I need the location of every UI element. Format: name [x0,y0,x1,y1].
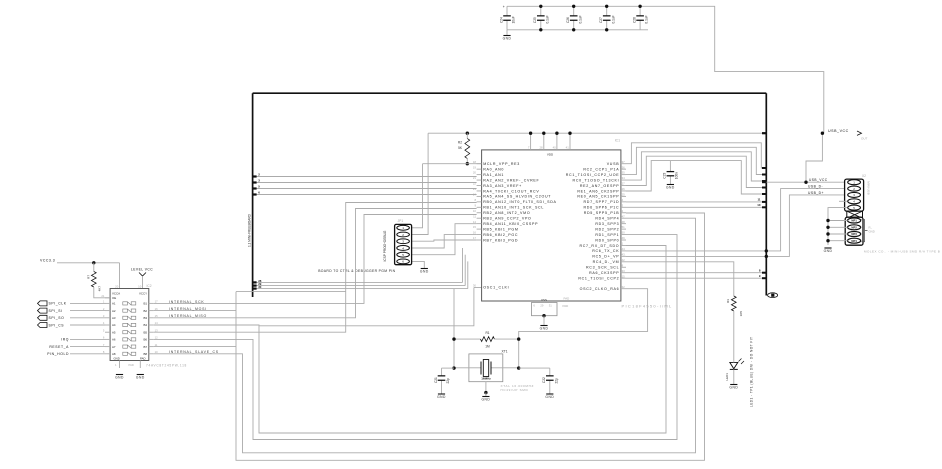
wire INTERNAL_SCK [154,215,477,304]
svg-text:PAD: PAD [564,297,570,301]
wire OSC2 route [519,289,648,368]
wire MCU to module edge pin 8 [626,272,766,274]
junction at module edge D- [765,249,768,252]
svg-text:PAD: PAD [140,356,146,360]
svg-text:MOLEX CO.. - MINI-USB SMD R/A: MOLEX CO.. - MINI-USB SMD R/A TYPE B [864,250,940,254]
wire INTERNAL_MOSI [154,310,236,312]
svg-text:A6: A6 [112,338,116,342]
svg-text:48: 48 [622,220,626,224]
MCU pin 43 RC5/D+/VP [621,255,626,257]
svg-text:22p: 22p [446,378,450,384]
wire R3 to LED [733,311,735,360]
resistor R3 1K5 [731,296,736,311]
svg-text:OUT: OUT [861,137,868,141]
shield pad MP4 [848,238,861,243]
level shifter pin A4 [105,324,110,326]
svg-text:USB_VCC: USB_VCC [809,178,828,182]
svg-text:20: 20 [115,285,119,289]
wire GND bottom rail of cap bank [507,29,648,31]
wire from module edge pin 30 to ICSP [253,288,468,290]
wire shield pad [828,233,848,235]
capacitor C25 0.1uF [540,6,542,16]
ground below shield [824,247,831,249]
junction [572,5,575,8]
ground below crystal [485,382,487,393]
svg-text:B6: B6 [143,338,147,342]
buffer symbol [123,345,128,348]
input flag SPI_CLK [38,301,48,306]
wire MCU to module edge [626,147,766,174]
buffer symbol [123,331,128,334]
svg-text:30: 30 [473,283,477,287]
svg-text:B3: B3 [143,316,147,320]
wire USB_D- route [626,189,847,251]
svg-text:74AVC8T245PW,118: 74AVC8T245PW,118 [146,364,187,368]
svg-text:RE2_AN7_OESPP: RE2_AN7_OESPP [580,184,619,188]
USB body crossed section [847,211,863,218]
wire PIN_HOLD [70,353,105,355]
MCU pin 48 RD3/SPP3 [621,223,626,225]
MCU pin 27 RE2/AN7/OESPP [621,185,626,187]
wire MCU to module edge [626,152,766,181]
wire VCC top rail [507,6,824,133]
svg-text:50: 50 [622,231,626,235]
svg-text:16MHz: 16MHz [481,377,491,381]
MCU VDD pin stub 40 [556,133,558,150]
svg-text:10: 10 [138,285,142,289]
svg-text:32: 32 [622,285,626,289]
svg-text:43: 43 [622,252,626,256]
resistor R2 10K [466,132,469,135]
buffer symbol [123,309,128,312]
wire crystal left vertical [453,289,455,369]
level shifter OE pin [105,297,110,299]
wire from module edge pin 5 [253,188,477,190]
MCU pin 23 RA4/T0CKI/C1OUT/RCV [477,190,482,192]
svg-text:C23: C23 [663,173,667,179]
shield pad MP2 [848,225,861,230]
svg-text:GND: GND [824,249,833,253]
wire SPI_CLK [70,302,105,304]
MCU pin 25 RE0/AN5/CK1SPP [621,195,626,197]
MCU pin 14 RB4/AN11/KBI0/CSSPP [477,223,482,225]
svg-text:0.1uF: 0.1uF [545,15,549,23]
level shifter pin B2 [149,310,154,312]
wire from module edge pin 3 [253,182,477,184]
MCU VDD pin stub 28 [543,133,545,150]
wire shield pad [828,220,848,222]
svg-text:GND: GND [729,386,738,390]
MCU pin 26 RE1/AN6/CK2SPP [621,190,626,192]
svg-text:XT1: XT1 [502,350,508,354]
USB connector X2 body [845,179,864,211]
svg-text:0.1uF: 0.1uF [611,15,615,23]
svg-text:23: 23 [473,187,477,191]
level shifter pin B1 [149,302,154,304]
svg-text:B4: B4 [143,323,147,327]
MCU pin 18 MCLR/VPP/RE3 [477,163,482,165]
svg-text:20: 20 [473,171,477,175]
MCU pin 3 RD6/SPP6/P1C [621,206,626,208]
svg-text:49: 49 [622,236,626,240]
svg-text:RB1_AN10_INT1_SCK_SCL: RB1_AN10_INT1_SCK_SCL [483,206,544,210]
svg-text:GND: GND [503,37,512,41]
svg-text:18: 18 [473,160,477,164]
svg-text:C21: C21 [434,377,438,383]
wire shield pad [828,226,848,228]
svg-text:B7: B7 [143,345,147,349]
svg-text:47: 47 [622,214,626,218]
svg-text:35: 35 [622,171,626,175]
MCU VSS stub 29 [543,301,545,303]
junction [539,5,542,8]
svg-text:MP3: MP3 [851,232,857,236]
svg-text:INTERNAL_MOSI: INTERNAL_MOSI [169,307,207,311]
svg-text:B1: B1 [143,302,147,306]
svg-text:14: 14 [473,220,477,224]
svg-text:C22: C22 [542,377,546,383]
svg-text:RD2_SPP2: RD2_SPP2 [595,227,619,231]
module outline top edge [253,92,767,94]
MCU pin 8 RC3/SCK/SCL [621,266,626,268]
svg-text:7: 7 [528,146,530,150]
input flag SPI_SO [38,315,48,320]
svg-text:51: 51 [622,225,626,229]
junction [605,5,608,8]
wire VCC rail [428,132,766,134]
level shifter PAD stub [139,361,141,369]
svg-text:USB_D-: USB_D- [808,185,823,189]
MCU IC1 body [482,150,621,301]
svg-text:RD1_SPP1: RD1_SPP1 [595,233,619,237]
svg-text:9: 9 [474,203,476,207]
svg-text:B5: B5 [143,330,147,334]
svg-text:RD7_SPP7_P1D: RD7_SPP7_P1D [584,200,620,204]
svg-text:RA2_AN2_VREF-_CVREF: RA2_AN2_VREF-_CVREF [483,178,539,182]
svg-text:0.1uF: 0.1uF [578,15,582,23]
svg-text:31: 31 [549,303,552,307]
svg-text:GND: GND [420,270,429,274]
MCU pin 44 RC6/TX/CK [621,250,626,252]
level shifter pin A6 [105,338,110,340]
svg-text:GND: GND [481,398,490,402]
svg-text:27: 27 [622,182,626,186]
MCU pin 33 RA6/CK3SPP [621,272,626,274]
capacitor C26 0.1uF [573,6,575,16]
wire VCCY [142,276,144,289]
level shifter pin B7 [149,346,154,348]
capacitor C21 22p [452,366,455,369]
svg-text:RA6_CK3SPP: RA6_CK3SPP [589,271,619,275]
svg-text:INTERNAL_MISO: INTERNAL_MISO [169,314,207,318]
junction [572,28,575,31]
svg-text:1K5: 1K5 [739,311,743,317]
svg-text:RD3_SPP3: RD3_SPP3 [595,222,619,226]
svg-text:21: 21 [473,176,477,180]
svg-text:SPI_CS: SPI_CS [49,323,65,327]
svg-text:OSC1_CLKI: OSC1_CLKI [483,286,509,290]
crystal XT1 [469,354,503,382]
svg-text:RA4_T0CKI_C1OUT_RCV: RA4_T0CKI_C1OUT_RCV [483,189,539,193]
svg-text:X2: X2 [862,174,866,178]
wire shield pad [828,240,848,242]
svg-text:MCLR_VPP_RE3: MCLR_VPP_RE3 [483,162,520,166]
LED1 [730,362,738,368]
svg-text:37: 37 [622,160,626,164]
svg-text:21: 21 [101,294,104,298]
wire USB_VCC to pin1 [766,181,847,183]
svg-text:RB3_AN9_CCP2_VPO: RB3_AN9_CCP2_VPO [483,217,531,221]
capacitor C23 100n [669,161,671,172]
svg-text:INTERNAL_SLAVE_CS: INTERNAL_SLAVE_CS [169,350,219,354]
svg-text:MP2: MP2 [851,226,857,230]
svg-text:RB2_AN8_INT2_VMO: RB2_AN8_INT2_VMO [483,211,530,215]
wire SPI_CS [70,324,105,326]
svg-text:C28: C28 [633,17,637,23]
svg-text:C25: C25 [533,17,537,23]
svg-text:LED1 - TP1 (BLUE) DNI - DO NOT: LED1 - TP1 (BLUE) DNI - DO NOT FIT [750,337,754,407]
junction VCC3.3 [92,261,95,264]
label shield bracket [862,220,865,242]
ground below C21 [441,388,443,394]
USB shield pads [845,217,863,245]
USB pin 5 [848,205,861,210]
wire OSC1 pin stub [474,287,482,289]
wire OSC1 lower route [236,291,346,293]
svg-text:RD5_SPP5_P1B: RD5_SPP5_P1B [584,211,620,215]
MCU pin 4 RD7/SPP7/P1D [621,201,626,203]
wire from module edge pin 6 [253,194,477,196]
MCU VDD pin stub 7 [530,133,532,150]
level shifter pin A7 [105,346,110,348]
wire MCU to module edge pin 10 [626,206,766,208]
svg-text:RB6_KBI2_PGC: RB6_KBI2_PGC [483,233,518,237]
MCU pin 51 RD2/SPP2 [621,228,626,230]
MCU VSS stub 6 [535,301,537,303]
net flag oval at right edge end [768,293,778,298]
svg-text:1: 1 [115,363,117,367]
svg-text:C26: C26 [566,17,570,23]
svg-text:PIC18F4550-I/ML: PIC18F4550-I/ML [622,304,673,309]
wire from module edge pin 29 to ICSP [253,285,466,287]
ground below level shifter PAD [137,374,144,376]
MCU pin 47 RD4/SPP4 [621,217,626,219]
svg-text:RC3_SCK_SCL: RC3_SCK_SCL [586,266,619,270]
svg-text:OE: OE [112,296,116,300]
level shifter pin B4 [149,324,154,326]
svg-text:100n: 100n [675,172,679,179]
wire B4 net [154,246,666,434]
svg-text:GND: GND [437,395,446,399]
svg-text:6: 6 [533,303,535,307]
wire VCC3.3 net [57,262,120,264]
svg-text:10: 10 [473,209,477,213]
junction [638,5,641,8]
svg-text:RB5_KBI1_PGM: RB5_KBI1_PGM [483,227,518,231]
svg-text:OSC2_CLKO_RA6: OSC2_CLKO_RA6 [580,287,620,291]
svg-text:40: 40 [553,146,557,150]
wire MCLR net [423,163,482,165]
svg-text:+: + [503,5,505,9]
svg-text:30: 30 [258,285,262,289]
shield pad MP1 [848,218,861,223]
svg-text:5: 5 [103,328,105,332]
wire B7 net [236,213,705,460]
svg-text:BOARD TO CTRL & DEBUGGER PGM P: BOARD TO CTRL & DEBUGGER PGM PIN [318,269,395,273]
resistor R7 4K7 [93,263,95,272]
wire B5 net [154,203,477,333]
svg-text:24: 24 [473,193,477,197]
wire MCU to module edge pin 11 [626,201,766,203]
svg-text:RA3_AN3_VREF+: RA3_AN3_VREF+ [483,184,522,188]
svg-text:SPI_SI: SPI_SI [49,309,63,313]
svg-text:IRQ: IRQ [61,338,69,342]
svg-text:RC7_RX_DT_SDO: RC7_RX_DT_SDO [579,244,619,248]
svg-text:LED1: LED1 [725,373,729,381]
svg-text:PAD: PAD [563,304,569,308]
svg-text:RD4_SPP4: RD4_SPP4 [595,217,619,221]
wire SPI_SI [70,310,105,312]
USB pin 3 [848,192,861,197]
ground at ICSP [421,268,428,270]
MCU pin 2 RD5/SPP5/P1B [621,212,626,214]
svg-text:RESET_A: RESET_A [49,345,69,349]
MCU pin 36 RC2/CCP1/P1A [621,168,626,170]
svg-text:C27: C27 [599,17,603,23]
resistor R1 1M [454,338,481,340]
wire from module edge pin 2 [253,176,477,178]
svg-text:RC2_CCP1_P1A: RC2_CCP1_P1A [583,167,619,171]
wire SPI_SO [70,317,105,319]
buffer symbol [123,316,128,319]
input flag SPI_SI [38,308,48,313]
MCU pin 42 RC4/D-/VM [621,261,626,263]
svg-text:8: 8 [759,269,761,273]
svg-text:A5: A5 [112,330,116,334]
MCU pin 24 RA5/AN4/SS/HLVDIN/C2OUT [477,195,482,197]
MCU pin 10 RB2/AN8/INT2/VMO [477,212,482,214]
wire OSC1 vertical branch [259,288,474,326]
svg-text:42: 42 [622,258,626,262]
wire MCU to module edge [626,161,766,194]
svg-text:8: 8 [622,263,624,267]
svg-text:MINI-USB: MINI-USB [867,181,871,195]
svg-text:RC0_T1OSO_T13CKI: RC0_T1OSO_T13CKI [573,178,620,182]
svg-text:8: 8 [474,198,476,202]
svg-text:17: 17 [473,236,477,240]
svg-text:A1: A1 [112,302,116,306]
svg-text:1: 1 [622,242,624,246]
junction [605,28,608,31]
ground below MCU pads [543,316,545,326]
level shifter pin B6 [149,338,154,340]
svg-text:VCC3.3: VCC3.3 [40,259,55,263]
MCU pin 20 RA1/AN1 [477,174,482,176]
MCU pin 16 RB6/KBI2/PGC [477,234,482,236]
wire INTERNAL_SLAVE_CS [154,218,696,453]
MCU pin 21 RA2/AN2/VREF-/CVREF [477,179,482,181]
svg-text:10uF: 10uF [512,16,516,23]
wire IRQ [70,338,105,340]
svg-text:1M: 1M [485,344,490,348]
svg-text:MP1: MP1 [851,219,857,223]
svg-text:R7: R7 [86,275,90,279]
svg-text:22p: 22p [554,378,558,384]
svg-text:VCCY: VCCY [139,292,147,296]
svg-text:GND: GND [115,376,124,380]
MCU pin 37 VUSB [621,163,626,165]
svg-text:10: 10 [757,203,761,207]
svg-text:RD0_SPP0: RD0_SPP0 [595,238,619,242]
buffer symbol [123,323,128,326]
junction [539,28,542,31]
svg-text:RA5_AN4_SS_HLVDIN_C2OUT: RA5_AN4_SS_HLVDIN_C2OUT [483,195,551,199]
svg-text:22: 22 [473,182,477,186]
MCU pin 15 RB5/KBI1/PGM [477,228,482,230]
svg-text:15: 15 [622,274,626,278]
level shifter pin A3 [105,317,110,319]
svg-text:A4: A4 [112,323,116,327]
svg-text:2: 2 [622,209,624,213]
wire B7a net Y7 [154,346,236,348]
svg-text:IC2: IC2 [147,284,152,288]
net arrow OUT [857,131,862,135]
module outline left edge [252,93,254,297]
svg-text:RB7_KBI3_PGD: RB7_KBI3_PGD [483,238,518,242]
svg-text:RC1_T1OSI_CCP2: RC1_T1OSI_CCP2 [578,276,619,280]
MCU pin 19 RA0/AN0 [477,168,482,170]
wire LED feed [626,262,734,296]
svg-text:R2: R2 [458,141,462,145]
ground below LED1 [730,384,737,386]
level shifter pin A8 [105,353,110,355]
wire RESET_A [70,346,105,348]
svg-text:11: 11 [757,198,760,202]
wire B6 net [154,235,677,440]
junction at module edge D+ [765,255,768,258]
svg-text:INTERNAL_SCK: INTERNAL_SCK [169,300,204,304]
svg-text:3: 3 [622,203,624,207]
svg-text:36: 36 [622,165,626,169]
svg-text:ICSP PROG+DEBUG: ICSP PROG+DEBUG [383,230,387,261]
shield pad MP3 [848,232,861,237]
wire ICSP VDD [412,133,429,234]
svg-text:USB_D+: USB_D+ [808,191,824,195]
svg-text:GND: GND [540,327,549,331]
svg-text:15: 15 [473,225,477,229]
svg-text:44: 44 [622,247,626,251]
svg-text:RB0_AN12_INT0_FLT0_SDI_SDA: RB0_AN12_INT0_FLT0_SDI_SDA [483,200,556,204]
buffer symbol [123,338,128,341]
svg-text:A2: A2 [112,309,116,313]
MCU pin 1 RC7/RX/DT/SDO [621,244,626,246]
MCU VSS stub 31 [552,301,554,303]
svg-text:B2: B2 [143,309,147,313]
wire VCCA [119,263,121,289]
svg-text:RA1_AN1: RA1_AN1 [483,173,504,177]
svg-text:USB_VCC: USB_VCC [828,129,849,133]
svg-text:JP1: JP1 [398,219,404,223]
svg-text:LEVEL VCC: LEVEL VCC [131,268,153,272]
svg-text:VSS: VSS [541,298,547,302]
svg-text:VUSB: VUSB [607,162,620,166]
MCU VDD pin stub 41 [569,133,571,150]
capacitor C28 0.1uF [639,6,641,16]
svg-text:PIN_HOLD: PIN_HOLD [47,352,69,356]
junction USB_VCC node [804,181,807,184]
svg-text:28: 28 [539,146,543,150]
svg-text:R1: R1 [485,331,489,335]
